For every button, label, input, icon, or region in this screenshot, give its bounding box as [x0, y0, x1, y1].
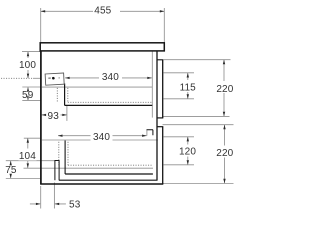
- svg-text:455: 455: [94, 5, 111, 16]
- 455: [41, 10, 46, 12]
- dimension lines 455/100/340/115/220/59/93/340/120/220/104/75/53: [11, 11, 225, 204]
- svg-text:104: 104: [19, 151, 36, 162]
- notch top (upper drawer front bottom): [157, 117, 163, 119]
- drawer2 bottom: [65, 173, 153, 175]
- svg-text:59: 59: [22, 90, 34, 101]
- back panel black right edge, full height: [156, 51, 158, 180]
- 104: [27, 138, 29, 143]
- svg-text:220: 220: [216, 148, 233, 159]
- top cap right: [157, 59, 164, 61]
- svg-text:75: 75: [5, 165, 17, 176]
- soft-close damper box with mounting dot: [45, 73, 64, 85]
- 53: [36, 203, 41, 205]
- 100: [27, 52, 29, 57]
- hidden drawer-box outlines (dotted): [1, 78, 153, 165]
- inner bottom: [59, 179, 158, 181]
- 120: [187, 137, 189, 142]
- 59: [27, 87, 29, 92]
- 93: [42, 114, 47, 116]
- drawer2 back bracket: [147, 130, 154, 136]
- drawer1 bottom: [65, 104, 153, 106]
- drawer1 runner vertical: [64, 84, 66, 106]
- svg-text:115: 115: [180, 82, 197, 93]
- svg-text:120: 120: [179, 147, 196, 158]
- svg-text:340: 340: [102, 72, 119, 83]
- front face: [40, 51, 42, 185]
- svg-text:53: 53: [69, 200, 81, 211]
- svg-text:100: 100: [19, 60, 36, 71]
- svg-text:93: 93: [48, 111, 60, 122]
- 115: [187, 73, 189, 78]
- drawer2 runner vertical: [64, 141, 66, 175]
- extension lines (gray) for all dimensions: [6, 8, 234, 209]
- right outer (two segments, open drawer gap): [162, 60, 164, 184]
- white masks behind dimension labels: [5, 4, 236, 174]
- countertop: [40, 43, 164, 51]
- plinth leg: [55, 160, 60, 180]
- svg-text:340: 340: [93, 132, 110, 143]
- dimension labels: [5, 5, 233, 210]
- cabinet bottom: [40, 183, 163, 185]
- dimension arrowheads: [10, 10, 226, 205]
- notch bottom (lower drawer front top): [157, 126, 163, 128]
- svg-text:220: 220: [216, 84, 233, 95]
- 75: [10, 161, 12, 166]
- cabinet technical drawing: [0, 0, 246, 219]
- 340 upper: [65, 77, 70, 79]
- 220 lower: [223, 125, 225, 130]
- 340 lower: [58, 135, 63, 137]
- 220 upper: [223, 60, 225, 65]
